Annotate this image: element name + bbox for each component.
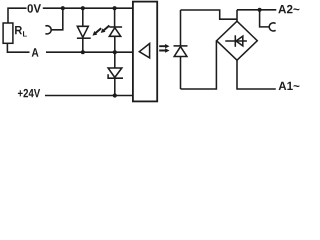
connector socket left — [45, 26, 51, 34]
node dot 0V rail at connector stub — [61, 6, 65, 10]
wire bridge apex stub — [236, 10, 238, 21]
wire zener branch top — [114, 52, 116, 68]
wire 0V rail — [43, 7, 133, 9]
A1~ terminal label — [279, 82, 300, 90]
wire connector stub — [51, 8, 63, 30]
photo-triac cathode bar — [174, 45, 188, 47]
node dot +24V rail at zener — [113, 93, 117, 97]
node dot A rail at zener — [113, 50, 117, 54]
wire connector stub right — [260, 10, 270, 27]
wire LED branch bottom — [114, 36, 116, 52]
LED emission arrow 2 — [101, 25, 110, 33]
LED cathode bar — [109, 26, 122, 28]
LED emission arrow 1 — [93, 27, 102, 35]
wire D1 branch top — [82, 8, 84, 26]
bridge rectifier diamond — [217, 21, 258, 60]
A terminal label — [32, 48, 39, 56]
diode D1 — [77, 26, 88, 37]
LED diode triangle — [109, 28, 120, 37]
wire A2 line — [237, 9, 276, 11]
connector socket right — [269, 23, 275, 31]
wire photo-triac bottom — [180, 57, 182, 90]
A2~ terminal label — [278, 5, 299, 13]
photo-triac triangle — [174, 47, 187, 57]
wire A rail — [46, 51, 133, 53]
diode D1 cathode bar — [77, 37, 91, 39]
+24V terminal label — [18, 89, 40, 97]
wire RL bottom to A rail — [7, 43, 29, 52]
module box U1 — [133, 2, 157, 102]
opto arrow 1 — [159, 44, 169, 48]
bridge inner diode cathode bar — [234, 35, 236, 47]
wire D1 branch bottom — [82, 38, 84, 52]
bridge inner wire — [225, 40, 247, 42]
zener cathode bar with bent end — [108, 74, 123, 78]
node dot A rail at D1 — [81, 50, 85, 54]
zener diode Z1 — [108, 68, 122, 77]
resistor RL box — [3, 23, 13, 43]
wire top link to bridge — [181, 10, 238, 19]
bridge inner diode triangle — [236, 36, 243, 46]
amplifier triangle — [139, 44, 149, 58]
node dot A2 line — [258, 8, 262, 12]
0V terminal label — [27, 4, 40, 13]
wire U link bridge to photo-triac — [181, 41, 217, 89]
wire LED branch top — [114, 8, 116, 27]
wire photo-triac top — [180, 10, 182, 46]
resistor RL label — [15, 26, 22, 34]
wire RL top to 0V rail — [8, 8, 27, 23]
node dot 0V rail at LED — [113, 6, 117, 10]
wire zener branch bottom — [114, 78, 116, 95]
opto arrow 2 — [159, 48, 169, 52]
wire +24V rail — [45, 95, 133, 97]
wire A1 line — [237, 60, 276, 89]
node dot 0V rail at diode D1 — [81, 6, 85, 10]
